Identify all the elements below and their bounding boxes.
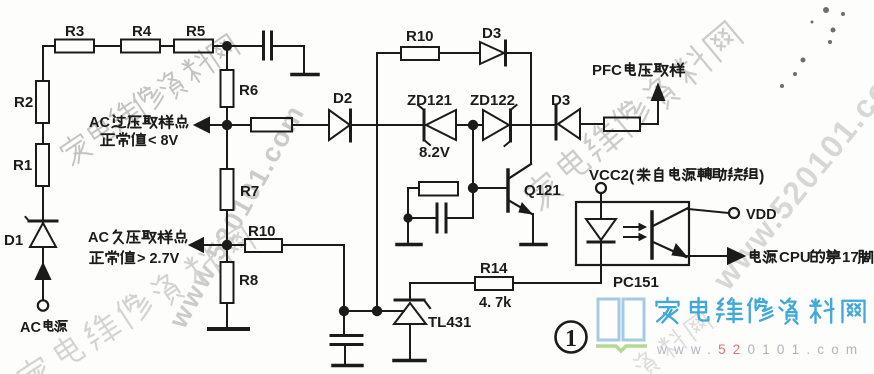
phototransistor <box>650 212 654 258</box>
diode D3 (top) <box>480 42 504 64</box>
watermark www.520101.com left-middle diagonal <box>163 99 311 334</box>
node x377 bottom <box>372 306 382 316</box>
resistor R7 <box>226 129 228 169</box>
svg-text:AC: AC <box>20 320 41 336</box>
wire R7 to node <box>226 210 228 245</box>
svg-text:VDD: VDD <box>746 207 777 223</box>
wire y311 to TL431 <box>344 310 404 312</box>
svg-text:R14: R14 <box>480 260 508 277</box>
svg-text:TL431: TL431 <box>428 314 471 331</box>
wire base resistor left leg <box>408 188 419 244</box>
terminal VDD <box>729 208 739 218</box>
watermark www.520101.com right diagonal <box>705 47 874 297</box>
resistor R14 <box>475 277 513 290</box>
resistor R10 (bottom) <box>245 239 282 252</box>
wire D1 to AC source arrow <box>42 247 44 266</box>
ground (bottom capacitor) <box>333 364 362 368</box>
arrow AC undervoltage (left) <box>190 239 203 252</box>
ground (Q121 emitter) <box>521 243 546 247</box>
logo book base (green) <box>596 346 647 351</box>
wire ZD122 to D3 <box>511 124 556 126</box>
wire D3 to resistor <box>580 123 604 125</box>
resistor (base, unlabeled) <box>419 182 458 196</box>
wire R4-R5 <box>160 45 174 47</box>
label 电源CPU的第17脚 <box>751 250 760 262</box>
wire to D2 <box>292 124 329 126</box>
svg-text:1: 1 <box>565 326 577 352</box>
arrow AC source (up) <box>36 264 50 279</box>
svg-text:R10: R10 <box>248 223 276 240</box>
wire to R14 <box>410 282 475 284</box>
capacitor (base) <box>408 217 436 219</box>
wire C1 to ground <box>273 46 304 73</box>
watermark 家电维修资料网 right-middle diagonal <box>521 18 744 213</box>
wire x377 to R10 top <box>377 52 401 54</box>
diode D3 (right) <box>555 105 558 139</box>
wire ZD121 to ZD122 <box>456 124 483 126</box>
wire R8 to ground <box>226 303 228 328</box>
svg-text:R6: R6 <box>239 82 258 99</box>
wire zener node down to base node <box>472 129 474 188</box>
svg-text:R4: R4 <box>132 23 152 40</box>
wire R2 to R1 <box>42 123 44 144</box>
resistor R8 <box>226 250 228 262</box>
wire R6 to node <box>226 107 228 125</box>
wire emitter to CPU arrow <box>687 255 728 257</box>
resistor (unlabeled) PFC <box>604 118 640 132</box>
resistor R5 <box>174 40 213 53</box>
node base <box>468 183 478 193</box>
arrow to CPU (right) <box>728 249 744 264</box>
wire arrow to node <box>209 124 251 126</box>
wire collector to VDD <box>688 209 729 213</box>
svg-text:R8: R8 <box>239 272 258 289</box>
node AC overvoltage sampling <box>222 120 232 130</box>
node AC undervoltage sampling <box>222 240 232 250</box>
svg-text:R7: R7 <box>240 183 259 200</box>
svg-text:D3: D3 <box>551 92 570 109</box>
LED inside PC151 <box>586 219 616 240</box>
svg-text:PC151: PC151 <box>613 274 659 291</box>
TL431 <box>395 299 424 302</box>
wire R5 to junction <box>213 45 262 47</box>
transistor Q121 <box>506 170 510 211</box>
label 正常值<8V <box>101 134 114 145</box>
svg-text:D1: D1 <box>4 232 23 249</box>
circled number 1 <box>556 322 587 353</box>
svg-text:< 8V: < 8V <box>148 133 179 149</box>
wire R14 to opto LED cathode <box>513 244 601 283</box>
wire base node to Q121 <box>473 187 506 189</box>
capacitor (bottom) <box>343 311 345 335</box>
svg-text:R2: R2 <box>14 94 33 111</box>
svg-text:17: 17 <box>842 249 859 266</box>
svg-text:VCC2: VCC2 <box>589 167 629 184</box>
svg-text:> 2.7V: > 2.7V <box>137 251 180 267</box>
svg-text:Q121: Q121 <box>524 182 561 199</box>
ground (below R8) <box>209 327 248 331</box>
light arrows <box>624 226 640 228</box>
arrow AC overvoltage (left) <box>195 118 209 132</box>
logo text 家电维修资料网 (blue) <box>656 298 678 323</box>
svg-text:R1: R1 <box>13 157 32 174</box>
resistor R2 <box>36 81 49 123</box>
wire resistor to PFC arrow <box>640 99 658 124</box>
wire R10 to D3 top <box>439 52 480 54</box>
wire arrow to node <box>203 244 245 246</box>
resistor R10 (top) <box>401 47 439 60</box>
node between zeners <box>468 120 478 130</box>
svg-text:D3: D3 <box>482 25 501 42</box>
svg-text:AC: AC <box>88 230 109 246</box>
svg-text:8.2V: 8.2V <box>419 144 450 161</box>
wire top-left corner down to R2 <box>43 46 55 81</box>
terminal VCC2 <box>596 183 606 193</box>
svg-text:R3: R3 <box>65 23 84 40</box>
logo book icon <box>598 299 644 340</box>
svg-text:PFC: PFC <box>592 62 622 79</box>
wire R1 to D1 <box>42 186 44 220</box>
optocoupler box PC151 <box>576 202 689 265</box>
capacitor C1 top <box>262 32 265 59</box>
resistor R4 <box>121 40 160 53</box>
svg-text:D2: D2 <box>333 90 352 107</box>
svg-text:4. 7k: 4. 7k <box>479 295 512 311</box>
terminal AC电源 <box>38 300 48 310</box>
wire R10 to TL431 node <box>282 245 344 311</box>
svg-text:CPU: CPU <box>779 249 811 266</box>
wire VCC2 to LED <box>600 193 602 219</box>
svg-text:R10: R10 <box>406 28 434 45</box>
ground (top right bar) <box>292 73 318 77</box>
watermark 家电维修资料网 top-left diagonal <box>58 32 241 168</box>
node left leg <box>403 213 412 222</box>
wire junction to R6 <box>226 50 228 70</box>
wire R3-R4 <box>94 45 121 47</box>
wire TL431 top to R14 line <box>409 283 411 300</box>
label 正常值>2.7V <box>90 252 103 263</box>
diode D1 <box>29 220 57 223</box>
resistor R1 <box>36 144 49 186</box>
resistor R6 <box>221 70 234 107</box>
resistor R3 <box>55 40 94 53</box>
wire D3 top to Q121 collector <box>506 53 531 164</box>
watermark 资料网 near logo <box>631 310 714 374</box>
vertical wire x377 (R10 top / TL431 ref) <box>376 53 378 311</box>
wire D2 to ZD121 <box>350 124 423 126</box>
ground (base network) <box>397 243 421 247</box>
arrow PFC (up) <box>652 85 664 100</box>
svg-text:ZD121: ZD121 <box>407 92 452 109</box>
resistor (unlabeled) overvoltage <box>251 118 292 132</box>
zener ZD122 <box>483 110 509 140</box>
svg-text:R5: R5 <box>186 23 205 40</box>
watermark 家电维修资料网 bottom-left diagonal <box>15 223 257 374</box>
junction node top <box>222 41 232 51</box>
smudge specks top-right <box>780 7 845 88</box>
node TL431 ref left <box>339 306 349 316</box>
diode D2 <box>329 110 350 140</box>
svg-text:AC: AC <box>89 115 110 131</box>
svg-text:ZD122: ZD122 <box>470 92 515 109</box>
ground (TL431) <box>394 359 425 363</box>
svg-text:(: ( <box>629 168 635 185</box>
svg-text:www.520101.com: www.520101.com <box>656 342 864 357</box>
zener ZD121 <box>423 110 426 140</box>
svg-text:): ) <box>759 168 764 185</box>
